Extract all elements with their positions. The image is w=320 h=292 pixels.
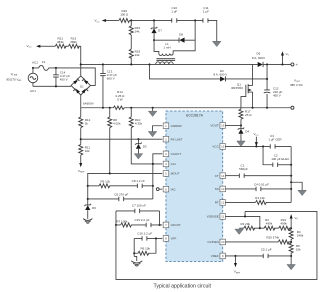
diode D3 (PKLMT clamp) (135, 139, 147, 153)
svg-text:C7 100 nF: C7 100 nF (132, 204, 146, 208)
junction (R8 top at MOUT) (109, 172, 111, 174)
svg-text:VFF: VFF (171, 237, 177, 241)
node VREF (arrow down) (234, 256, 241, 274)
resistor R4 249k (289, 228, 304, 241)
node AC2 (32, 61, 38, 69)
svg-text:OVP/EN: OVP/EN (207, 240, 218, 244)
node VREF (arrow down under R11) (78, 155, 85, 174)
wire (130, 35, 132, 49)
svg-text:13: 13 (221, 187, 225, 191)
wire (VCC rail) (129, 19, 171, 21)
bridge rectifier D1 6A600V (71, 76, 94, 106)
transistor Q1 IRFP450 (MOSFET) (231, 64, 253, 107)
svg-text:C16 2.2 μF: C16 2.2 μF (137, 231, 152, 235)
wire (pin14 CT) + capacitor C1 560pF (225, 163, 291, 177)
capacitor C11 1uF (203, 6, 209, 23)
junction (VREF arrow) (234, 255, 236, 257)
svg-text:R1 12k: R1 12k (255, 196, 265, 200)
svg-text:1 mH: 1 mH (163, 45, 170, 49)
diode D6 (MOUT clamp) (84, 204, 96, 219)
svg-text:24k: 24k (135, 29, 140, 33)
junction (VO node) (290, 227, 292, 229)
wire (ground bus vertical) (290, 146, 292, 202)
junction (C13) (102, 63, 104, 65)
junction (159, 224, 161, 226)
svg-text:450 V: 450 V (60, 77, 68, 81)
junction (244, 215, 246, 217)
wire (AC1 line to bridge left corner) (33, 85, 71, 87)
svg-text:VREF: VREF (211, 254, 219, 258)
wire (bridge bottom corner to return rail) (80, 95, 82, 108)
wire (comp row 2) + capacitor C6 270pF (88, 192, 153, 201)
svg-text:10: 10 (221, 240, 225, 244)
capacitor C7 100nF (116, 204, 160, 214)
junction (feedback net at box edge) (115, 224, 117, 226)
svg-text:6A600V: 6A600V (83, 101, 94, 105)
svg-text:C8 1.2 nF: C8 1.2 nF (132, 179, 145, 183)
ground (arrow, bus tap) (291, 182, 306, 195)
svg-text:D1: D1 (80, 85, 84, 89)
resistor R15 24k (129, 20, 140, 35)
node VCC (arrow down onto pin15 line) (253, 132, 259, 147)
node VO (arrow up from divider) (290, 214, 299, 228)
capacitor C8 1.2nF (132, 179, 153, 188)
fuse F1 (39, 60, 49, 70)
svg-text:MOUT: MOUT (171, 172, 180, 176)
diode D4 (gate clamp) (238, 128, 250, 141)
wire (to ground) (208, 20, 217, 41)
ground (arrow, under R5) (287, 264, 296, 269)
junction (D7/D8/bias node) (153, 39, 155, 41)
ground (earth style, VFF) (131, 253, 142, 266)
wire (pin15 VCC line) (225, 145, 270, 147)
svg-text:R20 374k: R20 374k (266, 236, 279, 240)
svg-text:VOUT: VOUT (210, 124, 219, 128)
wire (DC+ rail) (81, 63, 258, 65)
wire (R5 to ground) (290, 253, 292, 265)
wire (R10 to CAI line) (131, 128, 162, 164)
svg-text:VAOUT: VAOUT (171, 223, 181, 227)
pin 16 DRVOUT (210, 123, 225, 129)
resistor R2 499k (264, 218, 275, 230)
svg-text:C15 2.2 μF: C15 2.2 μF (134, 218, 149, 222)
svg-text:R3 20k: R3 20k (240, 222, 250, 226)
wire (startup resistor line) (40, 45, 55, 47)
junction dots on return rail (102, 107, 104, 109)
svg-text:600 V: 600 V (107, 76, 115, 80)
pin 13 SS (215, 186, 226, 192)
svg-text:450 V: 450 V (273, 94, 281, 98)
svg-text:SS: SS (215, 187, 219, 191)
svg-text:24k: 24k (135, 53, 140, 57)
resistor R3 20k (240, 222, 254, 230)
junction (87, 198, 89, 200)
resistor R14 0.25 Ohm 5W (shunt, on rail) (113, 90, 125, 109)
wire (comp row 1) + resistor R5 12k (88, 180, 138, 188)
ground (arrow style, right of C11) (212, 41, 221, 46)
junction (CAI line) (152, 163, 154, 165)
svg-text:11: 11 (221, 215, 224, 219)
junction (133, 252, 135, 254)
pin 1 GND (163, 123, 182, 129)
wire (80, 128, 82, 145)
pin 9 VREF (211, 253, 226, 259)
ground (arrow, pin 1) (148, 131, 157, 136)
node VCC (top rail tag) (94, 19, 106, 24)
capacitor C3 1uF CER (268, 134, 291, 149)
junction (87, 185, 89, 187)
junction (R18) (130, 63, 132, 65)
svg-text:IRFP450: IRFP450 (231, 86, 243, 90)
wire (PKLMT line, pin 2) (81, 138, 163, 140)
pin 12 RT (215, 200, 226, 206)
capacitor C13 0.47uF 600V (100, 64, 117, 107)
resistor R16 100 Ohm (119, 9, 130, 23)
wire (pin13 SS) + capacitor C4 0.01uF (225, 183, 291, 192)
wire (to bridge DC+ column) (78, 46, 81, 64)
resistor R8 4.02k (108, 108, 121, 128)
svg-text:R7 100k: R7 100k (116, 220, 128, 224)
pin 3 CAOUT (163, 151, 181, 157)
junction (R15 column) (130, 19, 132, 21)
resistor R11 10k (79, 144, 91, 155)
svg-text:4.32k: 4.32k (135, 122, 143, 126)
svg-text:CT: CT (215, 174, 219, 178)
svg-text:GNDDR: GNDDR (171, 124, 183, 128)
pin 2 PKLMT (163, 136, 182, 142)
ground (arrow, divider bottom) (235, 228, 244, 234)
svg-text:4.02k: 4.02k (113, 122, 121, 126)
svg-text:499k: 499k (266, 222, 273, 226)
svg-text:15: 15 (221, 145, 225, 149)
label VOUT 385 V DC (290, 78, 304, 87)
wire (R18 to DC rail) (130, 57, 132, 64)
resistor R7 100k (116, 220, 146, 227)
pin 14 CT (215, 173, 226, 179)
svg-text:383k: 383k (57, 40, 64, 44)
junction (C14 top) (55, 67, 57, 69)
wire (R17 to DRVOUT line) (240, 119, 242, 128)
node (pin6 IAC off-page circle) (156, 188, 162, 191)
svg-text:RT: RT (215, 201, 219, 205)
junction (C14 bottom) (55, 85, 57, 87)
svg-text:1 μF: 1 μF (203, 9, 209, 13)
pin 7 VAOUT (163, 222, 181, 228)
wire (pin1 GND to ground) (153, 126, 163, 132)
svg-text:25 Ω: 25 Ω (245, 113, 252, 117)
svg-text:1 μF: 1 μF (171, 9, 177, 13)
wire (pin11 VSENSE) (225, 216, 260, 228)
wire (source top to fuse line) (32, 68, 34, 73)
capacitor C2 100uF ELEC (parallel branch) (263, 146, 291, 167)
svg-text:VCC: VCC (212, 145, 219, 149)
diode D7 (VCC clamp) (151, 20, 162, 40)
resistor R21 383k (55, 36, 66, 48)
pin 8 VFF (163, 236, 176, 242)
pin 11 VSENSE (207, 214, 226, 220)
wire (154, 39, 179, 41)
wire (D8 to bias winding / C10-C11 node) (173, 20, 195, 53)
junction (D7 column) (153, 19, 155, 21)
wire (rail after D5 to output) (263, 63, 291, 65)
pin 6 IAC (163, 186, 176, 192)
ground (arrow, on return rail) (148, 108, 157, 117)
wire (return rail) (81, 107, 291, 109)
svg-text:10k: 10k (85, 149, 90, 153)
ground (earth style, under D6) (83, 219, 92, 224)
svg-text:5 W: 5 W (117, 97, 123, 101)
junction (VO arrow) (281, 63, 283, 65)
junction (VSENSE divider node) (259, 227, 261, 229)
pin 4 CAI (163, 161, 176, 167)
ground (arrow, under D3) (134, 154, 143, 159)
wire (pin12 RT) + resistor R1 12k (225, 196, 291, 204)
wire (pin7 VAOUT node) (160, 224, 163, 226)
terminal - output (291, 106, 294, 109)
svg-text:2k: 2k (85, 122, 89, 126)
svg-text:PK LMIT: PK LMIT (171, 137, 183, 141)
svg-text:100 Ω: 100 Ω (120, 12, 129, 16)
wire (R8 to MOUT line) (109, 128, 111, 174)
junction (PKLMT divider node) (80, 138, 82, 140)
resistor R20 374k (266, 236, 291, 244)
wire (VSENSE feedback loop / outer box) (116, 211, 317, 280)
svg-text:D4: D4 (245, 130, 249, 134)
svg-text:F1: F1 (42, 60, 46, 64)
node VO (arrow up) (281, 51, 290, 64)
wire (289, 227, 292, 229)
junction (bias winding column) (194, 19, 196, 21)
svg-text:D3: D3 (143, 145, 147, 149)
junction (C8 row) (152, 185, 154, 187)
wire (33, 67, 39, 69)
wire (177, 19, 203, 21)
svg-text:C6 270 pF: C6 270 pF (114, 192, 128, 196)
wire (pin5 MOUT line) (88, 173, 163, 205)
resistor R19 499k (279, 218, 290, 230)
svg-text:Typical application circuit: Typical application circuit (154, 283, 212, 289)
source VLINE 85/270 VAC (6, 72, 37, 83)
wire (225, 78, 267, 80)
svg-text:1 μF CER: 1 μF CER (268, 138, 282, 142)
svg-text:IAC: IAC (171, 187, 177, 191)
pin 15 VCC (212, 144, 225, 150)
wire (gate) (241, 93, 246, 109)
svg-text:12: 12 (221, 201, 225, 205)
wire (fuse line to bridge right corner) (49, 68, 96, 86)
resistor R18 24k (129, 49, 140, 58)
junction (80, 63, 82, 65)
svg-text:CAOUT: CAOUT (171, 152, 182, 156)
resistor R12 2k (79, 108, 91, 128)
capacitor C10 1uF (171, 6, 177, 23)
junction (C12 top) (266, 63, 268, 65)
wire (65, 45, 68, 47)
svg-text:D7: D7 (158, 29, 162, 33)
svg-text:C5 1 μF: C5 1 μF (261, 248, 272, 252)
svg-text:D6: D6 (92, 206, 96, 210)
junction (node C) (290, 241, 292, 243)
diode D5 8A 600V (boost) (252, 52, 265, 67)
svg-text:R6 10k: R6 10k (140, 247, 150, 251)
diode D2 8A 600V (213, 69, 227, 82)
wire (VSENSE node vertical) (244, 211, 246, 216)
svg-text:VSENSE: VSENSE (207, 215, 219, 219)
resistor R13 383k (68, 36, 79, 48)
wire (D2 bypass branch) (149, 64, 220, 79)
op-amp U1 UCC2817A (PFC controller IC body) (166, 111, 223, 262)
resistor R5 15k (289, 242, 301, 253)
node VCC (startup tag, top-left) (26, 44, 40, 49)
svg-text:100 μF ELEC: 100 μF ELEC (271, 157, 290, 161)
svg-text:CAI: CAI (171, 162, 176, 166)
wire (105, 19, 118, 21)
junction (155, 237, 157, 239)
terminal + output (291, 62, 299, 67)
svg-text:AC1: AC1 (30, 89, 36, 93)
svg-text:383k: 383k (70, 40, 77, 44)
svg-text:D8: D8 (179, 33, 183, 37)
resistor R17 25 Ohm (239, 109, 252, 119)
wire (pin9 VREF line) (225, 255, 263, 257)
pin 5 MOUT (163, 171, 179, 177)
inductor L1 1mH (bias winding) (159, 42, 173, 56)
capacitor C15 2.2uF (134, 218, 159, 227)
wire (pin16 DRVOUT) (225, 124, 241, 126)
svg-text:C4 0.01 μF: C4 0.01 μF (254, 183, 269, 187)
svg-text:385 V DC: 385 V DC (290, 83, 304, 87)
wire (bridge top corner to DC+ rail) (80, 64, 82, 76)
wire (C7 branch vertical) (159, 211, 161, 225)
wire (pin8 VFF line) + capacitor C16 2.2uF (134, 231, 162, 240)
svg-text:15k: 15k (296, 247, 301, 251)
transformer core (156, 59, 175, 61)
pin 10 OVP/EN (207, 239, 225, 245)
resistor R6 10k (VFF loop) (134, 238, 156, 255)
ground (arrow, under D4) (237, 141, 246, 146)
junction (C5 row) (290, 255, 292, 257)
junction (D2 branch) (148, 63, 150, 65)
junction (C2 branch) (262, 145, 264, 147)
svg-text:14: 14 (221, 174, 225, 178)
wire (254, 227, 265, 229)
diode D8 (bias rectifier) (179, 33, 184, 43)
svg-text:UCC2817A: UCC2817A (186, 113, 204, 117)
wire (source bottom to AC1 line) (32, 83, 34, 87)
svg-text:8 A, 600 V: 8 A, 600 V (213, 73, 227, 77)
svg-text:249k: 249k (297, 234, 304, 238)
junction (DRVOUT node) (240, 124, 242, 126)
wire (pin10 OVP/EN line) (225, 241, 278, 243)
resistor R10 4.32k (129, 108, 142, 128)
wire (pin3 CAOUT jog) (153, 154, 162, 199)
junction (D3 clamp) (137, 138, 139, 140)
capacitor C14 0.47uF 450V (53, 68, 70, 86)
svg-text:560pF: 560pF (239, 167, 248, 171)
svg-text:R5 12k: R5 12k (100, 180, 110, 184)
capacitor C12 220uF 450V (264, 64, 283, 107)
inductor L1 (main boost winding on rail) (156, 62, 174, 65)
svg-text:8 A, 600V: 8 A, 600V (252, 56, 265, 60)
wire (bias winding left jog) (154, 40, 159, 54)
svg-text:AC2: AC2 (32, 61, 38, 65)
svg-text:499k: 499k (280, 222, 287, 226)
svg-text:16: 16 (221, 124, 225, 128)
capacitor C5 1uF (VREF bypass) (261, 248, 291, 258)
wire (274, 227, 279, 229)
